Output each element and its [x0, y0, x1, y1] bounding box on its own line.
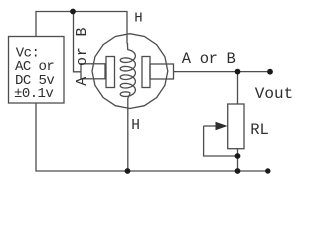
svg-text:A or B: A or B [182, 50, 236, 68]
svg-text:H: H [134, 11, 142, 27]
svg-text:RL: RL [250, 121, 269, 139]
svg-text:±0.1v: ±0.1v [14, 86, 53, 102]
svg-text:A or B: A or B [74, 27, 91, 86]
svg-text:H: H [131, 118, 140, 134]
svg-text:Vout: Vout [255, 85, 293, 103]
